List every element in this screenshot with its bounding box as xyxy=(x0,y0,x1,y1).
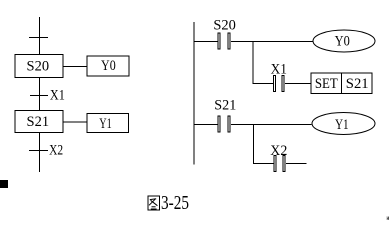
contact X1 xyxy=(274,76,285,92)
svg-text:X2: X2 xyxy=(49,143,63,159)
wire: S21 to Y1 xyxy=(64,121,88,123)
contact X2 xyxy=(274,156,285,172)
coil Y1 xyxy=(312,113,375,135)
transition bar (top) xyxy=(29,37,48,39)
wire: X2 sub-rung xyxy=(253,163,307,165)
svg-text:Y1: Y1 xyxy=(99,116,112,132)
wire: X1 sub-rung xyxy=(253,83,312,85)
svg-text:S21: S21 xyxy=(27,114,50,130)
transition X2 xyxy=(29,150,48,152)
coil Y0 xyxy=(313,30,375,52)
wire: rung 2 xyxy=(194,124,312,126)
svg-text:S21: S21 xyxy=(346,76,369,92)
wire: SFC main vertical line xyxy=(39,17,41,172)
svg-text:3-25: 3-25 xyxy=(161,193,189,214)
svg-text:S20: S20 xyxy=(27,59,50,75)
wire: branch down to X2 xyxy=(253,125,255,164)
caption hanzi TU (drawn) xyxy=(148,196,160,210)
left power rail xyxy=(193,22,195,165)
contact S21 xyxy=(218,116,230,132)
svg-text:S21: S21 xyxy=(214,98,236,114)
svg-text:Y0: Y0 xyxy=(335,34,350,50)
cursor artifact (bottom-right) xyxy=(386,216,389,220)
step S21 xyxy=(15,111,63,133)
action box Y0 xyxy=(87,56,129,76)
svg-text:Y0: Y0 xyxy=(101,58,116,74)
wire: S20 to Y0 xyxy=(64,66,88,68)
svg-text:Y1: Y1 xyxy=(335,117,349,133)
action box Y1 xyxy=(87,114,129,133)
wire: rung 1 xyxy=(194,41,313,43)
svg-text:SET: SET xyxy=(315,76,338,92)
step S20 xyxy=(15,55,63,78)
transition X1 xyxy=(30,95,48,97)
svg-text:X1: X1 xyxy=(50,88,65,104)
corner mark (scan artifact) xyxy=(0,180,8,188)
contact S20 xyxy=(218,33,230,49)
svg-text:S20: S20 xyxy=(213,18,236,34)
SET S21 function block xyxy=(311,73,372,94)
wire: branch down to X1 xyxy=(252,42,254,84)
